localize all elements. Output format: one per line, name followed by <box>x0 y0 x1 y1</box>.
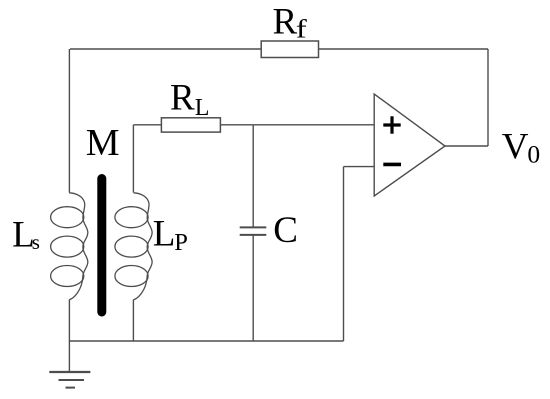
svg-text:f: f <box>296 15 307 44</box>
op-amp plus sign <box>383 116 400 133</box>
svg-text:V: V <box>502 126 529 167</box>
svg-text:L: L <box>195 95 210 121</box>
wire left vertical upper <box>68 49 70 193</box>
op-amp minus sign <box>383 163 401 167</box>
ground <box>49 372 90 388</box>
svg-text:s: s <box>32 230 40 254</box>
op-amp U1 <box>374 94 445 196</box>
svg-text:R: R <box>170 78 195 119</box>
svg-text:R: R <box>273 2 298 43</box>
inductor Ls <box>51 193 88 300</box>
capacitor C plates <box>240 227 267 235</box>
svg-text:C: C <box>273 210 298 251</box>
wire minus branch vertical <box>343 167 345 341</box>
wire C branch upper <box>252 125 254 227</box>
wire Lp vertical upper <box>132 125 134 193</box>
wire Lp vertical lower <box>132 300 134 342</box>
svg-text:P: P <box>174 229 188 256</box>
resistor Rf <box>261 41 318 58</box>
wire plus-input horizontal <box>133 124 374 126</box>
wire ground stem <box>68 341 70 372</box>
transformer core M bar <box>97 174 106 317</box>
wire C branch lower <box>252 235 254 341</box>
inductor Lp <box>115 193 152 300</box>
svg-text:L: L <box>153 214 176 255</box>
wire top feedback <box>70 48 488 50</box>
wire right vertical feedback <box>487 49 489 146</box>
wire op-amp output <box>445 145 488 147</box>
svg-text:0: 0 <box>527 140 540 169</box>
svg-text:M: M <box>86 122 120 164</box>
wire minus-input horizontal <box>344 166 375 168</box>
resistor RL <box>161 118 220 132</box>
wire bottom bus <box>69 340 343 342</box>
wire left vertical lower <box>68 300 70 342</box>
